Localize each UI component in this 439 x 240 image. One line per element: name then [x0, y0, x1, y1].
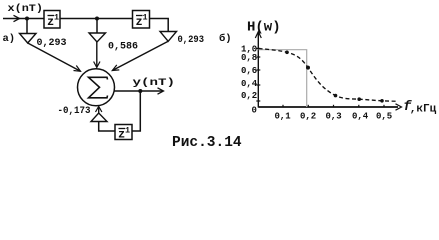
svg-text:1: 1	[125, 126, 130, 136]
arrowhead on output	[158, 88, 164, 94]
y tick 0,6	[256, 69, 260, 71]
svg-text:1: 1	[54, 13, 59, 23]
svg-text:0,293: 0,293	[37, 38, 67, 49]
svg-text:y(nT): y(nT)	[133, 77, 176, 89]
multiplier A4 triangle -0,173 (up)	[91, 113, 107, 122]
svg-text:0,8: 0,8	[241, 53, 257, 63]
multiplier A3 triangle 0,293	[160, 32, 177, 42]
wire: output line	[114, 90, 163, 92]
svg-text:0,4: 0,4	[352, 112, 369, 122]
wire: feedback to multiplier A4	[99, 122, 115, 132]
wire: stub to multiplier A1	[26, 19, 28, 34]
arrowhead y axis	[255, 32, 261, 38]
x tick 0,4	[358, 105, 360, 107]
svg-text:Рис.3.14: Рис.3.14	[172, 135, 242, 151]
delay block Z1 (z^-1)	[44, 11, 60, 30]
x tick 0,3	[333, 105, 335, 107]
x tick 0,1	[282, 105, 284, 107]
delay block Z2 (z^-1)	[133, 11, 150, 30]
wire: from A4 into summer bottom	[98, 106, 100, 113]
node: junction dot 2	[95, 17, 99, 21]
wire: vertical from A2 to summer	[96, 42, 98, 68]
arrowhead into summer from A2	[94, 62, 100, 68]
node: output junction dot	[138, 89, 142, 93]
data point f=0.5	[380, 99, 384, 103]
svg-text:а): а)	[3, 33, 16, 45]
wire: top right segment with corner down	[150, 19, 169, 32]
arrowhead into summer from A3	[112, 65, 119, 71]
svg-text:,кГц: ,кГц	[410, 103, 437, 115]
x tick 0,5	[383, 105, 385, 107]
data point f=0.4	[357, 97, 361, 101]
svg-text:0,5: 0,5	[376, 112, 392, 122]
delay block Z3 (z^-1) feedback	[115, 125, 132, 142]
svg-text:0,2: 0,2	[241, 91, 257, 101]
x tick 0,2	[307, 105, 309, 107]
svg-text:x(nT): x(nT)	[8, 3, 44, 15]
plot: gray ideal response box	[259, 50, 307, 107]
data point f=0.1	[285, 51, 289, 55]
wire: stub to multiplier A2	[96, 19, 98, 34]
multiplier A1 triangle 0,293	[20, 34, 37, 44]
axis label f,kHz	[403, 100, 436, 115]
wire: between delay blocks	[60, 18, 133, 20]
data point f=0.2	[306, 66, 310, 70]
svg-text:H(w): H(w)	[247, 20, 281, 36]
multiplier A2 triangle 0,586	[89, 33, 106, 42]
svg-text:-0,173: -0,173	[58, 106, 91, 117]
y tick 0,2	[256, 100, 260, 102]
summer U1 circle with sigma	[78, 69, 115, 106]
curve H(w) dashed	[259, 49, 398, 102]
svg-text:0,293: 0,293	[178, 35, 205, 46]
svg-text:0,3: 0,3	[326, 112, 342, 122]
node: junction dot 1	[25, 17, 29, 21]
svg-text:0: 0	[252, 106, 257, 116]
svg-text:0,4: 0,4	[241, 79, 258, 89]
y tick 1,0	[256, 47, 260, 49]
y tick 0,8	[256, 56, 260, 58]
svg-text:0,2: 0,2	[300, 112, 316, 122]
svg-text:1: 1	[143, 13, 148, 23]
arrowhead into summer from A4	[96, 106, 102, 112]
wire: diagonal from A1 to summer	[28, 43, 81, 71]
svg-text:б): б)	[219, 32, 232, 45]
svg-text:0,1: 0,1	[275, 112, 292, 122]
arrowhead x axis	[396, 104, 402, 110]
wire: diagonal from A3 to summer	[112, 41, 168, 70]
arrowhead on input wire	[14, 15, 20, 21]
plot: y axis	[257, 33, 259, 108]
data point f=0.3	[334, 94, 338, 98]
svg-text:0,586: 0,586	[108, 42, 138, 53]
plot: x axis	[258, 106, 398, 108]
wire: input line segment	[3, 18, 44, 20]
wire: feedback down from output junction	[132, 91, 140, 131]
arrowhead into summer from A1	[74, 66, 81, 72]
svg-text:0,6: 0,6	[241, 66, 257, 76]
y tick 0,4	[256, 84, 260, 86]
